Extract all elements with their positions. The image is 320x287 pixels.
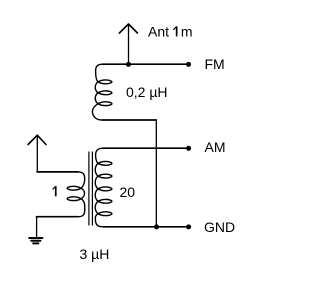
- svg-text:m: m: [181, 23, 193, 39]
- node junction bus/GND: [154, 224, 159, 229]
- wire bus vertical: [155, 120, 157, 227]
- svg-text:0,2 µH: 0,2 µH: [126, 84, 168, 100]
- label 1: [53, 186, 57, 196]
- svg-text:Ant: Ant: [148, 23, 169, 39]
- transformer T1 core: [89, 152, 93, 225]
- transformer T1 secondary winding 20: [95, 148, 112, 227]
- ground: [29, 238, 42, 243]
- wire FM net: [103, 63, 189, 65]
- wire primary bottom to ground: [37, 216, 78, 218]
- wire GND net: [103, 226, 189, 228]
- wire ground drop: [36, 217, 38, 237]
- node junction top: [126, 62, 131, 67]
- transformer T1 primary winding 1: [67, 172, 85, 217]
- svg-text:AM: AM: [205, 139, 226, 155]
- antenna ANT2 (left): [28, 135, 46, 172]
- node GND terminal: [186, 224, 191, 229]
- svg-text:3 µH: 3 µH: [80, 246, 110, 262]
- node FM terminal: [186, 62, 191, 67]
- svg-text:GND: GND: [204, 219, 235, 235]
- wire L1 bottom to bus: [103, 119, 157, 121]
- wire AM net: [103, 147, 189, 149]
- antenna ANT1 (top): [119, 24, 137, 64]
- svg-text:FM: FM: [205, 56, 225, 72]
- inductor L1 0.2uH: [92, 64, 111, 120]
- node AM terminal: [186, 146, 191, 151]
- svg-text:20: 20: [120, 184, 136, 200]
- wire antenna to primary top: [37, 171, 78, 173]
